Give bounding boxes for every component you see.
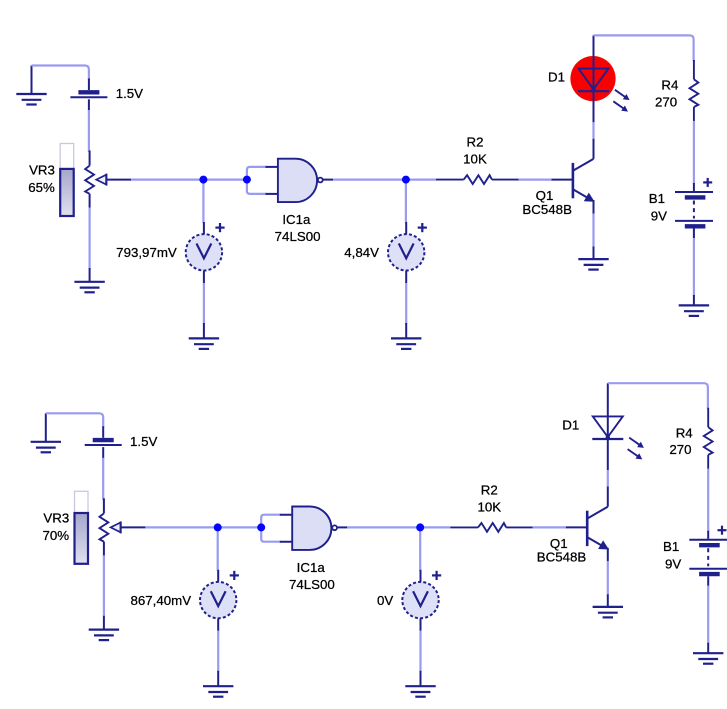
svg-text:867,40mV: 867,40mV (130, 593, 191, 608)
svg-text:74LS00: 74LS00 (289, 577, 335, 592)
svg-text:R2: R2 (467, 135, 484, 150)
svg-text:BC548B: BC548B (537, 550, 587, 565)
wire [bottom circuit] (145, 526, 217, 528)
battery cell 1.5V [top circuit] (70, 79, 143, 112)
battery B1 9V [bottom circuit] (663, 526, 727, 586)
wire [top circuit] (333, 179, 406, 181)
wire [bottom circuit] (607, 470, 609, 486)
wire [bottom circuit] (347, 526, 420, 528)
svg-text:Q1: Q1 (550, 536, 568, 551)
svg-text:D1: D1 (548, 70, 565, 85)
node junction (gate inputs) [top circuit] (243, 176, 251, 184)
LED D1 [top circuit] (548, 35, 630, 122)
svg-text:0V: 0V (377, 593, 393, 608)
svg-text:R2: R2 (481, 482, 498, 497)
wire [top circuit] (88, 110, 90, 152)
ground (output voltmeter) [bottom circuit] (405, 671, 435, 697)
NAND gate IC1a [top circuit] (266, 159, 334, 245)
resistor R4 270 [top circuit] (655, 60, 698, 121)
resistor R2 10K [bottom circuit] (450, 482, 533, 532)
wire [top circuit] (203, 179, 247, 181)
wire [bottom circuit] (707, 469, 709, 532)
svg-text:VR3: VR3 (43, 510, 69, 525)
wire [bottom circuit] (46, 413, 103, 428)
node junction (wiper net) [bottom circuit] (214, 523, 222, 531)
svg-text:1.5V: 1.5V (130, 434, 157, 449)
wire [top circuit] (519, 179, 552, 181)
battery cell 1.5V [bottom circuit] (85, 426, 158, 459)
LED D1 [bottom circuit] (562, 383, 644, 470)
wire [bottom circuit] (608, 383, 708, 409)
svg-text:65%: 65% (28, 180, 55, 195)
svg-text:Q1: Q1 (536, 188, 554, 203)
potentiometer VR3 [bottom circuit] (42, 491, 145, 564)
potentiometer VR3 [top circuit] (28, 144, 131, 217)
resistor R4 270 [bottom circuit] (669, 408, 712, 469)
voltmeter (wiper) [bottom circuit] (130, 570, 238, 631)
svg-text:10K: 10K (477, 499, 501, 514)
wire [bottom circuit] (607, 561, 609, 595)
wire [top circuit] (408, 179, 436, 181)
ground (battery negative) [bottom circuit] (31, 413, 61, 452)
transistor Q1 BC548B [top circuit] (522, 139, 594, 217)
svg-text:10K: 10K (463, 152, 487, 167)
battery B1 9V [top circuit] (649, 178, 713, 238)
svg-text:9V: 9V (665, 556, 681, 571)
ground (emitter) [top circuit] (578, 247, 608, 270)
svg-text:4,84V: 4,84V (344, 245, 379, 260)
wire [bottom circuit] (217, 530, 219, 571)
wire [bottom circuit] (707, 586, 709, 644)
svg-text:IC1a: IC1a (297, 560, 326, 575)
wire [bottom circuit] (103, 555, 105, 617)
wire [top circuit] (88, 208, 90, 270)
svg-text:270: 270 (655, 94, 677, 109)
transistor Q1 BC548B [bottom circuit] (537, 486, 609, 564)
wire [top circuit] (131, 179, 203, 181)
ground (output voltmeter) [top circuit] (391, 323, 421, 349)
ground (wiper voltmeter) [top circuit] (189, 323, 219, 349)
wire [top circuit] (247, 167, 267, 194)
wire [top circuit] (32, 66, 89, 81)
svg-text:VR3: VR3 (29, 163, 55, 178)
wire [top circuit] (693, 238, 695, 296)
wire [top circuit] (405, 182, 407, 223)
ground (battery negative) [top circuit] (16, 66, 46, 105)
ground (battery B1) [bottom circuit] (693, 643, 723, 664)
wire [top circuit] (594, 35, 694, 61)
ground (battery B1) [top circuit] (679, 295, 709, 316)
node junction (gate inputs) [bottom circuit] (257, 523, 265, 531)
wire [bottom circuit] (419, 530, 421, 571)
svg-text:9V: 9V (651, 209, 667, 224)
svg-text:R4: R4 (661, 78, 678, 93)
svg-text:IC1a: IC1a (282, 212, 311, 227)
ground (emitter) [bottom circuit] (593, 594, 623, 617)
wire [top circuit] (592, 122, 594, 138)
wire [bottom circuit] (102, 458, 104, 500)
voltmeter (NAND output) [bottom circuit] (377, 570, 441, 631)
svg-text:270: 270 (669, 442, 691, 457)
voltmeter (NAND output) [top circuit] (344, 222, 427, 283)
svg-text:70%: 70% (42, 528, 69, 543)
wire [bottom circuit] (422, 526, 450, 528)
wire [bottom circuit] (217, 631, 219, 672)
wire [bottom circuit] (218, 526, 262, 528)
node junction (gate output) [bottom circuit] (416, 523, 424, 531)
resistor R2 10K [top circuit] (436, 135, 519, 185)
voltmeter (wiper) [top circuit] (116, 222, 224, 283)
svg-text:793,97mV: 793,97mV (116, 245, 177, 260)
wire [top circuit] (592, 214, 594, 248)
ground (potentiometer) [top circuit] (74, 268, 104, 292)
svg-text:B1: B1 (663, 539, 679, 554)
svg-text:R4: R4 (676, 425, 693, 440)
svg-text:1.5V: 1.5V (116, 86, 143, 101)
wire [top circuit] (405, 283, 407, 324)
svg-text:B1: B1 (649, 191, 665, 206)
svg-text:D1: D1 (562, 417, 579, 432)
ground (wiper voltmeter) [bottom circuit] (203, 671, 233, 697)
ground (potentiometer) [bottom circuit] (89, 616, 119, 640)
NAND gate IC1a [bottom circuit] (280, 507, 348, 593)
wire [bottom circuit] (419, 631, 421, 672)
wire [bottom circuit] (533, 526, 566, 528)
wire [bottom circuit] (261, 515, 281, 542)
svg-text:74LS00: 74LS00 (275, 229, 321, 244)
svg-text:BC548B: BC548B (522, 202, 572, 217)
node junction (wiper net) [top circuit] (199, 176, 207, 184)
wire [top circuit] (693, 121, 695, 184)
wire [top circuit] (203, 283, 205, 324)
node junction (gate output) [top circuit] (402, 176, 410, 184)
wire [top circuit] (202, 182, 204, 223)
